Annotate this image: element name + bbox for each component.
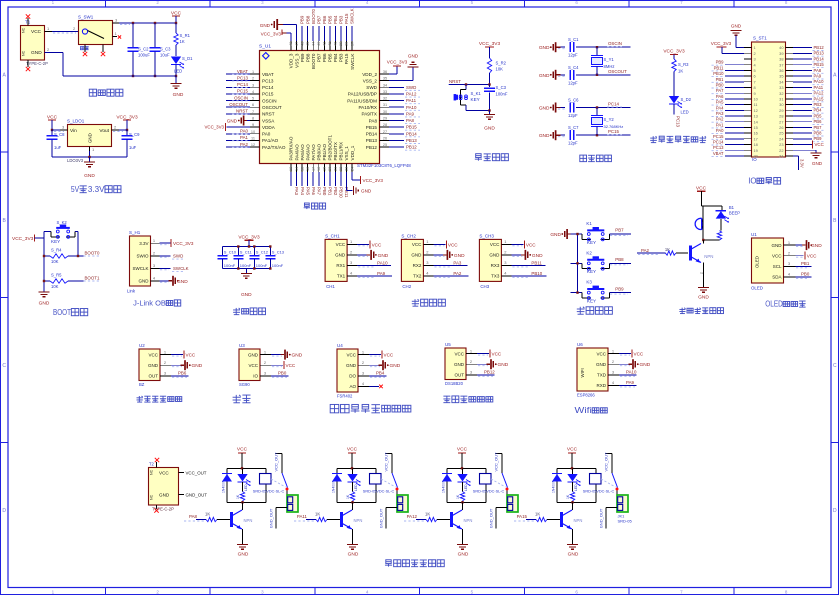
svg-text:PB0: PB0	[322, 187, 327, 196]
svg-text:13: 13	[754, 114, 758, 119]
svg-text:VCC: VCC	[567, 447, 578, 453]
svg-text:OLED: OLED	[755, 256, 760, 268]
svg-text:VCC: VCC	[186, 353, 196, 358]
svg-text:6: 6	[575, 589, 578, 594]
svg-text:VCC: VCC	[457, 447, 468, 453]
svg-text:4: 4	[788, 272, 791, 277]
svg-text:3: 3	[788, 261, 791, 266]
svg-text:PB8: PB8	[814, 131, 823, 136]
svg-text:PC14: PC14	[237, 82, 249, 87]
svg-text:PB4: PB4	[333, 53, 338, 62]
svg-text:1: 1	[350, 239, 353, 244]
svg-text:SRD-05VDC-SL-C: SRD-05VDC-SL-C	[363, 489, 395, 493]
svg-text:PB8: PB8	[305, 15, 310, 24]
svg-text:SWIO: SWIO	[137, 254, 149, 259]
svg-text:12pF: 12pF	[568, 53, 578, 58]
svg-text:NPN: NPN	[244, 518, 253, 523]
svg-text:1K: 1K	[678, 69, 683, 74]
svg-text:TX3: TX3	[491, 274, 500, 279]
svg-text:SWCLK: SWCLK	[132, 266, 148, 271]
svg-text:22: 22	[779, 148, 783, 153]
svg-text:29: 29	[779, 108, 783, 113]
svg-text:VCC: VCC	[772, 254, 782, 259]
svg-text:GND: GND	[292, 353, 303, 359]
svg-text:3: 3	[504, 260, 507, 265]
svg-text:VCC: VCC	[807, 254, 817, 259]
svg-text:NC: NC	[150, 494, 154, 500]
svg-text:9: 9	[754, 91, 756, 96]
svg-text:KEY: KEY	[587, 240, 596, 245]
svg-text:U2: U2	[139, 343, 145, 348]
svg-text:KEY: KEY	[587, 269, 596, 274]
svg-text:VCC: VCC	[815, 142, 824, 147]
svg-text:SRD-05VDC-SL-C: SRD-05VDC-SL-C	[253, 489, 285, 493]
svg-text:VCC: VCC	[448, 242, 458, 247]
svg-text:PA12/USB/DP: PA12/USB/DP	[348, 92, 377, 97]
svg-text:PB8: PB8	[305, 53, 310, 62]
svg-text:PA7: PA7	[716, 88, 724, 93]
svg-text:PA1: PA1	[716, 122, 724, 127]
svg-text:STM32F103C8T6_LQFP48: STM32F103C8T6_LQFP48	[357, 163, 411, 168]
svg-text:S_C2: S_C2	[138, 47, 149, 52]
svg-text:RX1: RX1	[336, 263, 345, 268]
svg-text:BZ: BZ	[139, 382, 145, 387]
svg-text:PC15: PC15	[713, 134, 724, 139]
svg-text:S_K2: S_K2	[57, 220, 68, 225]
svg-text:GND: GND	[698, 295, 709, 301]
svg-text:1: 1	[115, 31, 118, 36]
svg-text:NC: NC	[22, 50, 26, 56]
svg-text:PB10: PB10	[713, 71, 724, 76]
svg-text:PB11: PB11	[531, 260, 542, 265]
svg-text:VCC_OUT: VCC_OUT	[274, 452, 279, 472]
svg-text:TX2: TX2	[413, 274, 422, 279]
svg-text:16: 16	[754, 131, 758, 136]
svg-text:GND: GND	[238, 552, 249, 558]
svg-text:GND: GND	[346, 363, 357, 368]
svg-text:OSCOUT: OSCOUT	[608, 69, 627, 74]
svg-text:PA10/RX: PA10/RX	[358, 105, 377, 110]
svg-text:4: 4	[426, 271, 429, 276]
svg-text:VCC_3V3: VCC_3V3	[173, 241, 194, 246]
svg-text:1N4007: 1N4007	[442, 481, 446, 493]
svg-text:PB6: PB6	[178, 371, 187, 376]
svg-text:25: 25	[383, 143, 387, 147]
svg-text:S_CH2: S_CH2	[401, 233, 416, 238]
svg-text:PB5: PB5	[814, 113, 823, 118]
svg-text:PA2: PA2	[716, 117, 724, 122]
svg-text:VCC_OUT: VCC_OUT	[494, 452, 499, 472]
svg-text:PB0: PB0	[801, 272, 810, 277]
svg-text:GND: GND	[335, 253, 346, 258]
svg-text:5V: 5V	[71, 185, 80, 194]
svg-text:35: 35	[779, 74, 783, 79]
svg-text:C: C	[833, 363, 837, 369]
svg-text:PC15: PC15	[237, 89, 249, 94]
svg-text:PB12: PB12	[814, 45, 825, 50]
svg-text:BOOT0: BOOT0	[311, 53, 316, 69]
svg-text:K1: K1	[586, 221, 592, 226]
svg-text:U3: U3	[239, 343, 245, 348]
svg-text:1K: 1K	[180, 39, 185, 44]
svg-text:GND: GND	[498, 362, 509, 368]
svg-text:OSCOUT: OSCOUT	[262, 105, 282, 110]
svg-text:K3: K3	[586, 280, 592, 285]
svg-text:VDD_3: VDD_3	[289, 53, 294, 68]
svg-text:PB3: PB3	[814, 102, 823, 107]
svg-text:PB4: PB4	[376, 371, 385, 376]
svg-text:2: 2	[504, 250, 507, 255]
svg-text:1: 1	[264, 349, 267, 354]
svg-text:S_CH1: S_CH1	[325, 233, 340, 238]
svg-text:PB7: PB7	[316, 53, 321, 62]
svg-text:12: 12	[754, 108, 758, 113]
svg-text:PB12: PB12	[366, 145, 378, 150]
svg-text:PC14: PC14	[608, 102, 620, 107]
svg-text:GND: GND	[361, 189, 372, 194]
svg-text:36: 36	[383, 70, 387, 74]
svg-text:1: 1	[47, 26, 50, 31]
svg-text:VCC_OUT: VCC_OUT	[186, 471, 207, 476]
svg-text:VDD_2: VDD_2	[362, 72, 377, 77]
svg-text:VCC: VCC	[634, 352, 644, 357]
svg-text:3: 3	[754, 57, 756, 62]
svg-text:7: 7	[252, 110, 254, 114]
svg-text:38: 38	[345, 42, 349, 46]
svg-text:SWCLK: SWCLK	[350, 53, 355, 70]
svg-text:10: 10	[251, 130, 255, 134]
svg-text:PB6: PB6	[322, 53, 327, 62]
svg-text:PA15: PA15	[814, 96, 825, 101]
svg-text:VCC_3V3: VCC_3V3	[479, 41, 501, 47]
svg-text:PB4: PB4	[814, 108, 823, 113]
svg-text:44: 44	[311, 42, 315, 46]
svg-text:32.768KHz: 32.768KHz	[604, 124, 624, 129]
svg-text:VCC_OUT: VCC_OUT	[604, 452, 609, 472]
svg-text:VSS_1: VSS_1	[344, 146, 349, 161]
svg-text:3.3V: 3.3V	[139, 241, 148, 246]
svg-text:D: D	[2, 508, 6, 514]
svg-text:GND: GND	[408, 54, 419, 59]
svg-text:100nF: 100nF	[240, 263, 252, 268]
svg-text:PB0: PB0	[278, 371, 287, 376]
svg-text:VCC: VCC	[454, 351, 464, 356]
svg-text:GND: GND	[84, 173, 95, 179]
svg-text:VCC: VCC	[346, 352, 356, 357]
svg-text:12pF: 12pF	[568, 80, 578, 85]
svg-text:3: 3	[350, 260, 353, 265]
svg-text:GND: GND	[550, 232, 561, 238]
svg-text:23: 23	[779, 142, 783, 147]
svg-text:OSCIN: OSCIN	[608, 41, 622, 46]
svg-text:1: 1	[164, 349, 167, 354]
svg-text:Wifi: Wifi	[575, 405, 592, 415]
svg-text:2: 2	[788, 251, 791, 256]
svg-text:KEY: KEY	[587, 298, 596, 303]
svg-text:1: 1	[788, 240, 791, 245]
svg-text:PA11: PA11	[297, 514, 308, 519]
svg-text:32: 32	[383, 97, 387, 101]
svg-text:21: 21	[779, 154, 783, 159]
svg-text:PA2: PA2	[641, 248, 650, 253]
svg-text:11: 11	[754, 102, 758, 107]
svg-text:PB0: PB0	[716, 83, 725, 88]
svg-text:PC14: PC14	[262, 85, 274, 90]
svg-text:SCL: SCL	[773, 264, 782, 269]
svg-text:2: 2	[470, 359, 473, 364]
svg-text:PA9: PA9	[626, 380, 635, 385]
svg-text:NPN: NPN	[464, 518, 473, 523]
svg-text:38: 38	[779, 57, 783, 62]
svg-text:12pF: 12pF	[568, 141, 578, 146]
svg-text:B1: B1	[729, 205, 735, 210]
svg-text:BOOT0: BOOT0	[85, 251, 100, 256]
svg-text:GND: GND	[260, 23, 271, 28]
svg-text:45: 45	[306, 42, 310, 46]
svg-text:3: 3	[153, 263, 156, 268]
svg-text:OUT: OUT	[149, 374, 159, 379]
svg-text:GND: GND	[248, 352, 259, 357]
svg-text:17: 17	[754, 136, 758, 141]
svg-text:36: 36	[779, 68, 783, 73]
svg-text:PA8: PA8	[369, 118, 378, 123]
svg-text:PA10: PA10	[377, 260, 388, 265]
svg-text:33: 33	[383, 90, 387, 94]
svg-text:21: 21	[334, 167, 338, 171]
svg-text:S_Y1: S_Y1	[604, 57, 615, 62]
svg-text:PA11: PA11	[814, 85, 824, 90]
svg-text:GND: GND	[241, 292, 252, 298]
svg-text:PB11: PB11	[714, 65, 725, 70]
svg-text:S_R1: S_R1	[180, 33, 191, 38]
svg-text:1: 1	[470, 348, 473, 353]
svg-text:CH1: CH1	[326, 284, 335, 289]
svg-text:SWD: SWD	[173, 254, 183, 259]
svg-text:22: 22	[339, 167, 343, 171]
svg-text:28: 28	[383, 123, 387, 127]
svg-text:DS18B20: DS18B20	[445, 381, 464, 386]
svg-text:PB5: PB5	[327, 15, 332, 24]
svg-text:1uF: 1uF	[54, 145, 62, 150]
svg-text:PB8: PB8	[615, 257, 624, 262]
svg-text:S_R4: S_R4	[51, 248, 62, 253]
svg-text:42: 42	[323, 42, 327, 46]
svg-text:LED: LED	[244, 484, 248, 491]
svg-text:12pF: 12pF	[568, 113, 578, 118]
svg-text:VCC: VCC	[237, 447, 248, 453]
svg-text:GND_OUT: GND_OUT	[269, 508, 274, 528]
svg-text:GND: GND	[177, 279, 188, 285]
svg-text:S_R2: S_R2	[496, 61, 507, 66]
svg-text:31: 31	[383, 103, 387, 107]
svg-text:S_Y2: S_Y2	[604, 117, 615, 122]
svg-text:IO: IO	[748, 177, 756, 186]
svg-text:PA10: PA10	[626, 370, 637, 375]
svg-text:PB3: PB3	[339, 15, 344, 24]
svg-text:PB10: PB10	[339, 187, 344, 198]
svg-text:VCC_3V3: VCC_3V3	[363, 178, 384, 183]
svg-text:10K: 10K	[51, 284, 59, 289]
svg-text:WIFI: WIFI	[580, 368, 585, 377]
svg-text:PC13: PC13	[262, 78, 274, 83]
svg-text:BEEP: BEEP	[729, 211, 740, 216]
svg-text:13: 13	[289, 167, 293, 171]
svg-text:PA7/AO: PA7/AO	[311, 144, 316, 161]
svg-text:PB15: PB15	[366, 125, 378, 130]
svg-text:1: 1	[252, 70, 254, 74]
svg-text:OLED: OLED	[751, 286, 763, 291]
svg-text:Vout: Vout	[99, 128, 109, 134]
svg-text:LED: LED	[464, 484, 468, 491]
svg-text:PB14: PB14	[406, 131, 417, 136]
svg-text:PB9: PB9	[300, 15, 305, 24]
svg-text:PA5: PA5	[305, 187, 310, 196]
svg-text:PB12: PB12	[484, 370, 495, 375]
svg-text:ESP8266: ESP8266	[577, 393, 595, 398]
svg-text:1K: 1K	[346, 494, 350, 499]
svg-text:PA12: PA12	[407, 514, 418, 519]
svg-text:PA15: PA15	[517, 514, 528, 519]
svg-text:2: 2	[114, 125, 117, 130]
svg-text:100nF: 100nF	[256, 263, 268, 268]
svg-text:PB9: PB9	[615, 286, 624, 291]
svg-text:3: 3	[261, 589, 264, 594]
svg-text:PB7: PB7	[615, 228, 624, 233]
svg-text:VCC: VCC	[384, 353, 394, 358]
svg-text:GND: GND	[159, 493, 170, 498]
svg-text:B: B	[3, 218, 7, 224]
svg-text:S_C10: S_C10	[224, 250, 237, 255]
svg-text:8: 8	[754, 85, 756, 90]
svg-text:VCC: VCC	[490, 242, 500, 247]
svg-text:PB1/AO: PB1/AO	[322, 143, 327, 160]
svg-text:PA6: PA6	[716, 94, 724, 99]
svg-text:PA5: PA5	[716, 100, 724, 105]
svg-text:VCC_3V3: VCC_3V3	[238, 235, 260, 241]
svg-text:4: 4	[350, 271, 353, 276]
svg-text:26: 26	[779, 125, 783, 130]
svg-text:PA2/TX/AO: PA2/TX/AO	[262, 145, 286, 150]
svg-text:2: 2	[252, 77, 254, 81]
svg-text:PB9: PB9	[300, 53, 305, 62]
svg-text:GND: GND	[811, 243, 822, 249]
svg-text:NC: NC	[22, 27, 26, 33]
svg-text:37: 37	[779, 62, 783, 67]
svg-text:4: 4	[252, 90, 254, 94]
svg-text:NPN: NPN	[704, 254, 713, 259]
svg-text:47: 47	[295, 42, 299, 46]
svg-text:NRST: NRST	[236, 109, 248, 114]
svg-text:VCC: VCC	[596, 351, 606, 356]
svg-text:VCC_3V3: VCC_3V3	[204, 125, 224, 130]
svg-text:4: 4	[362, 381, 365, 386]
svg-text:GND: GND	[596, 362, 607, 367]
svg-text:VDD_1: VDD_1	[350, 145, 355, 160]
svg-text:VDDA: VDDA	[262, 125, 276, 130]
svg-text:VCC: VCC	[159, 471, 169, 476]
svg-text:19: 19	[754, 148, 758, 153]
svg-text:GND: GND	[411, 253, 422, 258]
svg-text:GND: GND	[454, 362, 465, 367]
svg-text:VCC_OUT: VCC_OUT	[384, 452, 389, 472]
svg-text:28: 28	[779, 114, 783, 119]
svg-text:TYPE-C-2P: TYPE-C-2P	[26, 61, 48, 66]
svg-text:GND: GND	[731, 24, 742, 29]
svg-text:PB10: PB10	[531, 271, 542, 276]
svg-text:PA15: PA15	[344, 53, 349, 64]
svg-text:BOOT: BOOT	[53, 307, 71, 317]
svg-text:1: 1	[612, 348, 615, 353]
svg-text:KEY: KEY	[471, 97, 480, 102]
svg-text:NRST: NRST	[262, 112, 275, 117]
svg-text:S_D2: S_D2	[681, 97, 692, 102]
svg-text:GND: GND	[489, 253, 500, 258]
svg-text:23: 23	[345, 167, 349, 171]
svg-text:6: 6	[754, 74, 756, 79]
svg-text:1: 1	[426, 239, 429, 244]
svg-text:15: 15	[300, 167, 304, 171]
svg-text:S_C3: S_C3	[496, 85, 507, 90]
svg-text:19: 19	[323, 167, 327, 171]
svg-text:PA15: PA15	[344, 13, 349, 24]
svg-text:17: 17	[311, 167, 315, 171]
svg-text:VCC: VCC	[372, 242, 382, 247]
svg-text:PA9: PA9	[814, 74, 822, 79]
svg-text:27: 27	[779, 119, 783, 124]
svg-text:3: 3	[115, 18, 118, 23]
svg-text:Vin: Vin	[70, 128, 77, 134]
svg-text:VBAT: VBAT	[713, 151, 724, 156]
svg-text:TX1: TX1	[337, 274, 346, 279]
svg-text:35: 35	[383, 77, 387, 81]
svg-text:10K: 10K	[51, 259, 59, 264]
svg-text:39: 39	[779, 51, 783, 56]
svg-text:PC15: PC15	[262, 92, 274, 97]
svg-text:1K: 1K	[236, 494, 240, 499]
svg-text:U4: U4	[337, 343, 343, 348]
svg-text:GND: GND	[31, 50, 42, 56]
svg-text:27: 27	[383, 130, 387, 134]
svg-text:S_ST1: S_ST1	[753, 36, 767, 41]
svg-text:PB15: PB15	[406, 125, 417, 130]
svg-text:TYPE-C-2P: TYPE-C-2P	[152, 507, 174, 512]
svg-text:31: 31	[779, 97, 783, 102]
svg-text:GND: GND	[378, 253, 389, 259]
svg-text:PA12: PA12	[814, 91, 825, 96]
svg-text:PA2: PA2	[240, 142, 249, 147]
svg-text:PB12: PB12	[406, 145, 417, 150]
svg-text:PA12: PA12	[406, 92, 417, 97]
svg-text:12: 12	[251, 143, 255, 147]
svg-text:GND: GND	[227, 118, 238, 123]
svg-text:SWD: SWD	[406, 85, 416, 90]
svg-text:5: 5	[754, 68, 756, 73]
svg-text:S_C7: S_C7	[568, 125, 579, 130]
svg-text:PA0: PA0	[716, 128, 724, 133]
svg-text:S_C11: S_C11	[240, 250, 253, 255]
svg-text:SWCLK: SWCLK	[173, 266, 189, 271]
svg-text:48: 48	[289, 42, 293, 46]
svg-text:VCC_3V3: VCC_3V3	[663, 49, 685, 55]
svg-text:1: 1	[362, 349, 365, 354]
svg-text:1: 1	[754, 45, 756, 50]
svg-text:1uF: 1uF	[129, 145, 137, 150]
svg-text:OLED: OLED	[765, 299, 783, 309]
svg-text:NC: NC	[150, 469, 154, 475]
svg-text:2: 2	[153, 251, 156, 256]
svg-text:PA0: PA0	[262, 132, 271, 137]
svg-text:OSCIN: OSCIN	[234, 95, 248, 100]
